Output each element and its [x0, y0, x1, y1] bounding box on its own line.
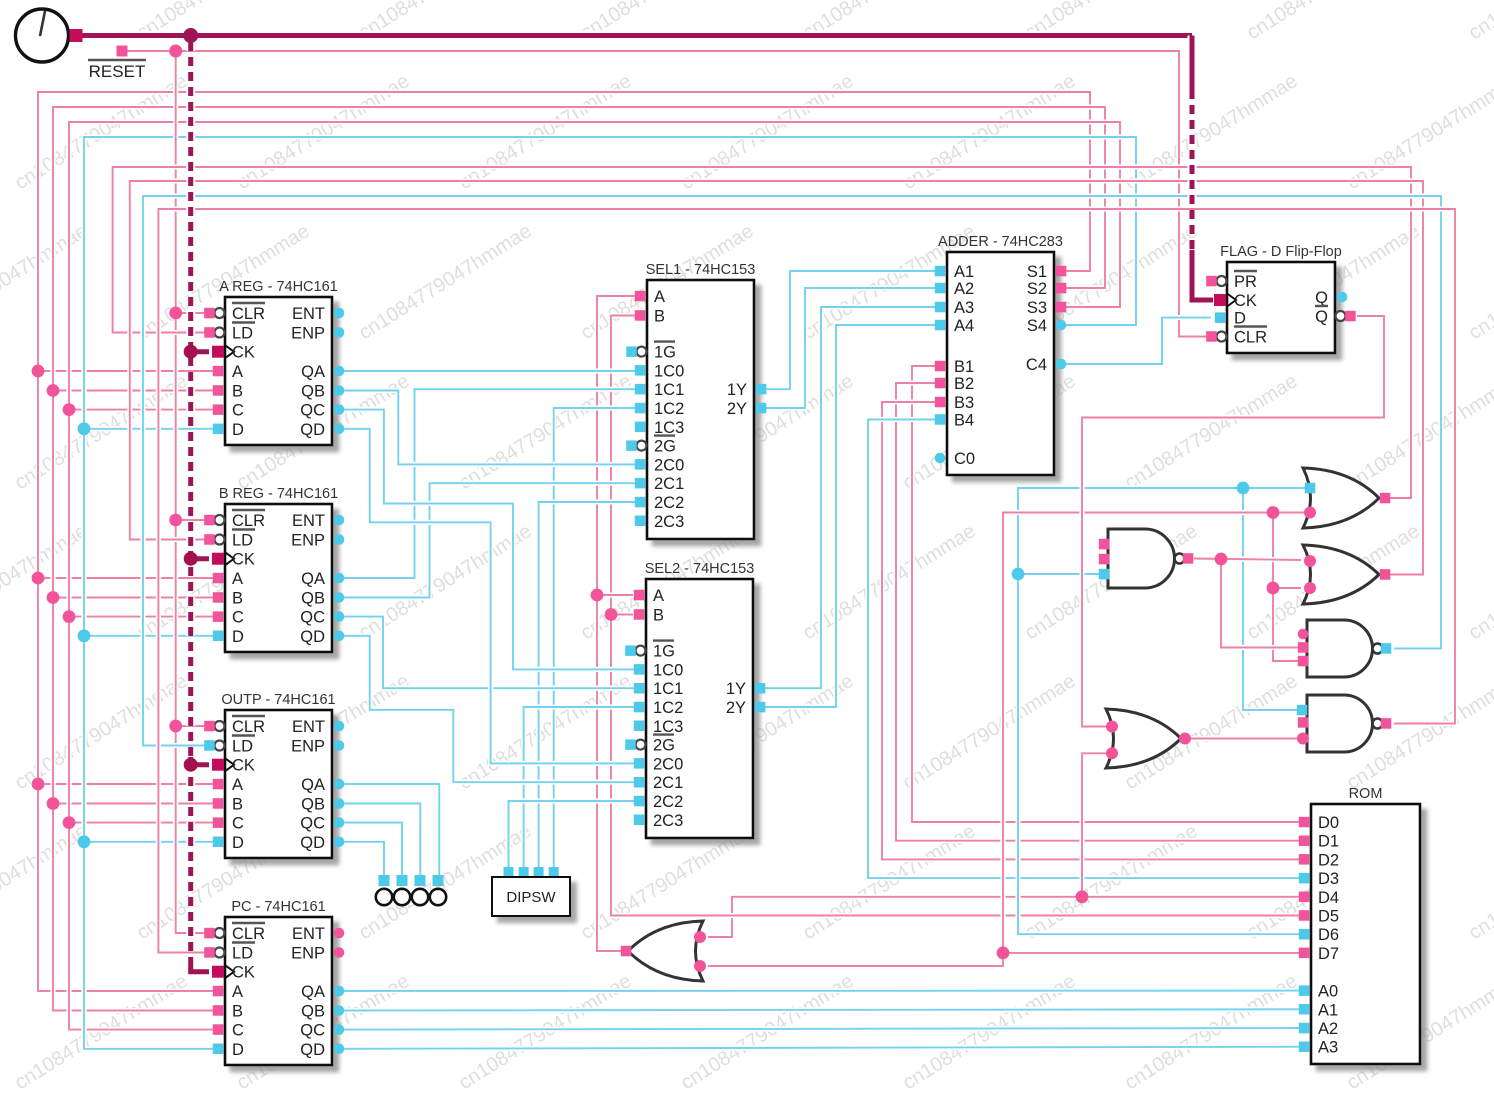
gate NAND1 (NAND) — [1108, 529, 1193, 588]
junction S-bus 69 — [63, 610, 76, 623]
svg-text:ENT: ENT — [292, 512, 325, 530]
svg-text:D2: D2 — [1318, 851, 1339, 869]
wire S3 stub C row OUTP — [69, 820, 218, 825]
svg-text:CLR: CLR — [232, 718, 265, 736]
junction S-bus 38 — [32, 778, 45, 791]
svg-text:B2: B2 — [954, 375, 974, 393]
svg-text:S2: S2 — [1027, 280, 1047, 298]
junction S4-bus — [78, 422, 91, 435]
wire S2 stub B row OUTP — [53, 801, 218, 806]
svg-text:1C2: 1C2 — [653, 699, 683, 717]
junction S-bus 38 — [32, 365, 45, 378]
junction reset A CLR — [169, 307, 182, 320]
wire ROM D3 to ADDER B4 — [868, 420, 1304, 879]
svg-text:2Y: 2Y — [726, 699, 746, 717]
DIPSW input switch — [492, 867, 570, 916]
wire OUTP QA to LED4 — [339, 784, 439, 875]
wire S2 stub B row A REG — [53, 388, 218, 393]
wire ROM D1 to ADDER B2 — [896, 383, 1304, 841]
wire OUTP QD to LED1 — [339, 842, 384, 875]
svg-text:QD: QD — [300, 421, 325, 439]
svg-text:D: D — [232, 628, 244, 646]
wire SEL2 2Y to ADDER A4 — [761, 325, 940, 707]
svg-text:B: B — [653, 607, 664, 625]
svg-text:LD: LD — [232, 532, 253, 550]
svg-text:ENP: ENP — [291, 325, 325, 343]
wire B REG QB to SEL1 2C1 — [339, 483, 640, 597]
wire PC QA to ROM A0 — [339, 988, 1304, 994]
svg-text:C0: C0 — [954, 450, 975, 468]
wire OR2 out to B REG LD — [130, 181, 1423, 575]
svg-text:B1: B1 — [954, 358, 974, 376]
svg-text:ADDER - 74HC283: ADDER - 74HC283 — [938, 234, 1063, 250]
svg-text:CLR: CLR — [1234, 329, 1267, 347]
svg-text:C: C — [232, 1022, 244, 1040]
svg-text:D: D — [232, 421, 244, 439]
svg-text:B REG - 74HC161: B REG - 74HC161 — [219, 486, 338, 502]
NAND1 input terminals — [1099, 539, 1110, 580]
wire D6 branch NAND3 input — [1243, 488, 1298, 710]
wire D7 branch to OR1 bottom input — [1003, 513, 1306, 953]
svg-text:B: B — [232, 1003, 243, 1021]
OR1 terminals — [1304, 483, 1390, 519]
chip SEL1 — [626, 262, 766, 539]
wire NAND2 out to OUTP LD — [143, 196, 1441, 746]
wire D7 stub OR2 bottom input — [1273, 585, 1301, 590]
svg-text:1C1: 1C1 — [654, 381, 684, 399]
wire OR1 out to A REG LD — [113, 167, 1411, 498]
svg-text:A2: A2 — [954, 280, 974, 298]
svg-text:B3: B3 — [954, 394, 974, 412]
wire B REG QC to SEL2 1C1 — [339, 617, 639, 689]
wire ROM D4 to OR-mirror top input — [708, 897, 1304, 937]
svg-text:ENP: ENP — [291, 945, 325, 963]
svg-text:QB: QB — [301, 590, 325, 608]
junction D6 NAND1 — [1012, 568, 1025, 581]
svg-text:QA: QA — [301, 570, 325, 588]
wire A REG QC to SEL2 1C0 — [339, 410, 639, 670]
svg-text:QC: QC — [300, 402, 325, 420]
svg-text:ENT: ENT — [292, 305, 325, 323]
gate NAND2 (NAND) — [1307, 620, 1391, 677]
junction clock branch A CK — [184, 345, 198, 359]
svg-text:1Y: 1Y — [726, 680, 746, 698]
junction D6 NAND3 branch — [1237, 482, 1250, 495]
wire DIPSW3 to SEL1 2C2 — [539, 502, 640, 867]
svg-text:CK: CK — [232, 964, 255, 982]
wire DIPSW4 to SEL1 1C2 — [554, 408, 640, 867]
wire D7 branch to OR2/NAND2 inputs — [1273, 513, 1299, 662]
wire SEL1 2Y to ADDER A2 — [762, 288, 940, 408]
junction reset OUTP CLR — [169, 720, 182, 733]
wire S4 stub D row OUTP — [84, 839, 218, 844]
svg-text:1C0: 1C0 — [654, 362, 684, 380]
chip ROM — [1299, 786, 1420, 1064]
wire PC QB to ROM A1 — [339, 1009, 1304, 1010]
junction clock tee — [183, 28, 198, 43]
wire D4 branch to OR3 bottom input — [1082, 753, 1110, 897]
wire D6 branch NAND1 input — [1018, 571, 1100, 576]
svg-text:D4: D4 — [1318, 889, 1339, 907]
svg-text:2C0: 2C0 — [654, 456, 684, 474]
svg-text:A1: A1 — [1318, 1001, 1338, 1019]
wire S1 net — [38, 92, 1090, 991]
gate OR4 mirrored (OR) — [628, 921, 703, 981]
svg-text:D7: D7 — [1318, 945, 1339, 963]
junction S-bus 38 — [32, 572, 45, 585]
junction selB SEL2 — [605, 608, 618, 621]
wire ROM D7 to OR-mirror bottom input — [708, 953, 1304, 966]
clock source symbol — [16, 9, 83, 62]
junction selA SEL2 — [591, 589, 604, 602]
OR4 terminals — [621, 931, 706, 972]
svg-text:A2: A2 — [1318, 1020, 1338, 1038]
svg-text:1C3: 1C3 — [653, 718, 683, 736]
svg-text:QD: QD — [300, 628, 325, 646]
svg-text:B: B — [232, 383, 243, 401]
junction D7 OR-column top — [1267, 506, 1280, 519]
svg-text:QA: QA — [301, 776, 325, 794]
svg-text:QA: QA — [301, 983, 325, 1001]
wire OR-mirror out to SEL A selects — [597, 296, 640, 951]
wire S2 net — [53, 107, 1105, 1011]
wire clock elbow B REG CK — [191, 551, 209, 559]
svg-text:QB: QB — [301, 796, 325, 814]
svg-text:C: C — [232, 402, 244, 420]
svg-text:ENP: ENP — [291, 738, 325, 756]
wire PC QD to ROM A3 — [339, 1047, 1304, 1049]
svg-text:A: A — [232, 776, 243, 794]
LED indicators — [376, 875, 446, 905]
svg-text:A: A — [232, 363, 243, 381]
junction D4 riser — [1076, 890, 1089, 903]
svg-text:CK: CK — [232, 551, 255, 569]
wire SEL1 1Y to ADDER A1 — [762, 271, 940, 389]
svg-text:B: B — [654, 308, 665, 326]
wire S1 stub A REG A — [38, 368, 218, 373]
OR3 terminals — [1106, 721, 1191, 760]
RESET terminal and label — [88, 46, 146, 82]
svg-text:C: C — [232, 609, 244, 627]
wire S2 stub B row B REG — [53, 595, 218, 600]
svg-text:1C3: 1C3 — [654, 419, 684, 437]
svg-text:D0: D0 — [1318, 814, 1339, 832]
svg-text:A1: A1 — [954, 263, 974, 281]
svg-text:CLR: CLR — [232, 305, 265, 323]
svg-text:QB: QB — [301, 383, 325, 401]
svg-text:1G: 1G — [653, 643, 675, 661]
junction S4-bus — [78, 629, 91, 642]
svg-text:LD: LD — [232, 325, 253, 343]
junction clock branch B CK — [184, 552, 198, 566]
svg-text:2C3: 2C3 — [654, 513, 684, 531]
junction NAND1 out branch — [1215, 553, 1228, 566]
wire S4 stub D row A REG — [84, 426, 218, 431]
svg-text:PC - 74HC161: PC - 74HC161 — [231, 899, 325, 915]
svg-text:CK: CK — [232, 344, 255, 362]
svg-text:Q: Q — [1315, 308, 1328, 326]
svg-text:C: C — [232, 815, 244, 833]
svg-text:2C1: 2C1 — [653, 774, 683, 792]
junction clock branch OUTP CK — [184, 758, 198, 772]
wire A REG QB to SEL1 2C0 — [339, 391, 640, 465]
gate NAND3 (NAND) — [1307, 695, 1391, 752]
svg-text:Q: Q — [1315, 289, 1328, 307]
svg-text:1C0: 1C0 — [653, 661, 683, 679]
wire NAND1 out to OR2 top input — [1194, 559, 1301, 561]
svg-text:C4: C4 — [1026, 356, 1047, 374]
svg-text:CLR: CLR — [232, 512, 265, 530]
wire S3 stub C row A REG — [69, 407, 218, 412]
svg-text:QB: QB — [301, 1003, 325, 1021]
svg-text:B: B — [232, 590, 243, 608]
chip SEL2 — [625, 561, 765, 838]
wire S1 stub OUTP A — [38, 781, 218, 786]
wire ROM D2 to ADDER B3 — [882, 402, 1304, 859]
wire SEL2 1Y to ADDER A3 — [761, 307, 940, 688]
chip A REG — [204, 279, 344, 445]
wire NAND1 branch to NAND2 input — [1221, 559, 1299, 648]
svg-text:1G: 1G — [654, 344, 676, 362]
svg-text:QA: QA — [301, 363, 325, 381]
wire PC QC to ROM A2 — [339, 1028, 1304, 1030]
wire RESET stub to A REG CLR — [176, 310, 208, 315]
svg-text:D3: D3 — [1318, 870, 1339, 888]
wire A REG QA to SEL1 1C0 — [339, 368, 640, 373]
svg-text:CK: CK — [232, 757, 255, 775]
chip OUTP — [204, 692, 344, 858]
svg-text:QD: QD — [300, 834, 325, 852]
chip B REG — [204, 486, 344, 652]
wire RESET vertical to register CLRs — [176, 51, 207, 933]
NAND2 input terminals — [1298, 629, 1309, 667]
wire B REG QD to SEL2 2C1 — [339, 636, 639, 782]
junction reset tee — [169, 45, 182, 58]
wire D5 stub SEL2 B — [611, 612, 633, 617]
wire clock elbow PC CK — [191, 958, 209, 972]
wire ROM D0 to ADDER B1 — [912, 366, 1304, 822]
wire S4 net — [84, 137, 1136, 1049]
svg-text:D6: D6 — [1318, 926, 1339, 944]
svg-text:CK: CK — [1234, 292, 1257, 310]
svg-text:CLR: CLR — [232, 925, 265, 943]
svg-text:B: B — [232, 796, 243, 814]
wire RESET stub to B REG CLR — [176, 517, 208, 522]
wire S1 stub B REG A — [38, 575, 218, 580]
gate OR3 (OR) — [1106, 709, 1181, 768]
svg-text:A3: A3 — [954, 299, 974, 317]
wire clock elbow A REG CK — [191, 344, 209, 352]
svg-text:A: A — [232, 983, 243, 1001]
wire OUTP QB to LED3 — [339, 804, 420, 876]
svg-text:2C2: 2C2 — [653, 793, 683, 811]
svg-text:SEL1 - 74HC153: SEL1 - 74HC153 — [646, 262, 756, 278]
svg-text:1C2: 1C2 — [654, 400, 684, 418]
wire S4 stub D row B REG — [84, 633, 218, 638]
junction D7 OR2 input — [1267, 582, 1280, 595]
svg-text:DIPSW: DIPSW — [506, 889, 556, 906]
svg-text:D: D — [232, 834, 244, 852]
junction S-bus 53 — [47, 384, 60, 397]
chip ADDER — [935, 234, 1067, 475]
svg-text:A REG - 74HC161: A REG - 74HC161 — [219, 279, 337, 295]
wire DIPSW2 to SEL2 1C2 — [524, 707, 639, 867]
gate OR1 (OR) — [1303, 468, 1379, 528]
wire clock elbow OUTP CK — [191, 757, 209, 765]
wire OR3 out to NAND3 input — [1190, 736, 1299, 741]
svg-text:2C2: 2C2 — [654, 494, 684, 512]
wire clock main horizontal — [69, 31, 1192, 40]
wire RESET horizontal to FLAG CLR — [127, 51, 1211, 337]
chip PC — [204, 899, 344, 1065]
svg-text:ENT: ENT — [292, 925, 325, 943]
junction S-bus 53 — [47, 591, 60, 604]
wire clock elbow FLAG CK — [1192, 250, 1213, 300]
svg-text:QC: QC — [300, 815, 325, 833]
svg-text:2Y: 2Y — [727, 400, 747, 418]
svg-text:A0: A0 — [1318, 983, 1338, 1001]
svg-text:A: A — [232, 570, 243, 588]
svg-text:1Y: 1Y — [727, 381, 747, 399]
junction S-bus 69 — [63, 403, 76, 416]
svg-text:LD: LD — [232, 738, 253, 756]
svg-text:QC: QC — [300, 609, 325, 627]
junction S-bus 69 — [63, 816, 76, 829]
junction reset B CLR — [169, 514, 182, 527]
gate OR2 (OR) — [1303, 545, 1379, 604]
svg-text:LD: LD — [232, 945, 253, 963]
svg-text:2C3: 2C3 — [653, 812, 683, 830]
svg-text:2G: 2G — [653, 737, 675, 755]
wire S3 net — [69, 122, 1120, 1030]
svg-text:FLAG - D Flip-Flop: FLAG - D Flip-Flop — [1220, 244, 1342, 260]
svg-text:D: D — [232, 1041, 244, 1059]
wire ROM D6 to OR1 top input — [1018, 488, 1306, 934]
wire clock right vertical top — [1188, 36, 1197, 94]
svg-text:A: A — [653, 587, 664, 605]
svg-text:A3: A3 — [1318, 1039, 1338, 1057]
svg-text:OUTP - 74HC161: OUTP - 74HC161 — [221, 692, 335, 708]
svg-text:QD: QD — [300, 1041, 325, 1059]
svg-text:D1: D1 — [1318, 833, 1339, 851]
wire ADDER C4 to FLAG D — [1066, 318, 1211, 364]
wire DIPSW1 to SEL2 2C2 — [509, 801, 640, 867]
svg-text:1C1: 1C1 — [653, 680, 683, 698]
svg-text:2G: 2G — [654, 438, 676, 456]
svg-text:SEL2 - 74HC153: SEL2 - 74HC153 — [645, 561, 755, 577]
svg-text:A: A — [654, 288, 665, 306]
wire B REG QA to SEL1 1C1 — [339, 389, 640, 578]
chip FLAG — [1206, 244, 1356, 353]
junction S4-bus — [78, 835, 91, 848]
wire OUTP QC to LED2 — [339, 823, 402, 875]
OR2 terminals — [1304, 555, 1390, 594]
wire clock right vertical (dashed) — [1188, 90, 1197, 253]
wire clock vertical to register CKs (dashed) — [186, 42, 195, 963]
svg-text:B4: B4 — [954, 412, 974, 430]
svg-text:ROM: ROM — [1349, 786, 1383, 802]
svg-text:S3: S3 — [1027, 299, 1047, 317]
NAND3 input terminals — [1297, 705, 1309, 745]
wire S3 stub C row B REG — [69, 614, 218, 619]
wire RESET stub to OUTP CLR — [176, 723, 208, 728]
junction D7 riser — [997, 947, 1010, 960]
svg-text:2C1: 2C1 — [654, 475, 684, 493]
svg-text:D5: D5 — [1318, 908, 1339, 926]
svg-text:S1: S1 — [1027, 263, 1047, 281]
wire A REG QD to SEL2 2C0 — [339, 429, 639, 764]
svg-text:ENP: ENP — [291, 532, 325, 550]
wire NAND3 out to PC LD — [158, 209, 1455, 953]
svg-text:ENT: ENT — [292, 718, 325, 736]
svg-text:2C0: 2C0 — [653, 755, 683, 773]
wire selA stub SEL2 A — [597, 592, 633, 597]
wire ROM D5 to SEL B selects — [611, 316, 1304, 916]
wire FLAG Qbar to OR3 top input — [1082, 316, 1384, 727]
svg-text:PR: PR — [1234, 273, 1257, 291]
svg-text:S4: S4 — [1027, 317, 1047, 335]
svg-text:QC: QC — [300, 1022, 325, 1040]
svg-text:D: D — [1234, 310, 1246, 328]
svg-text:A4: A4 — [954, 317, 974, 335]
svg-text:RESET: RESET — [89, 62, 146, 81]
junction S-bus 53 — [47, 797, 60, 810]
